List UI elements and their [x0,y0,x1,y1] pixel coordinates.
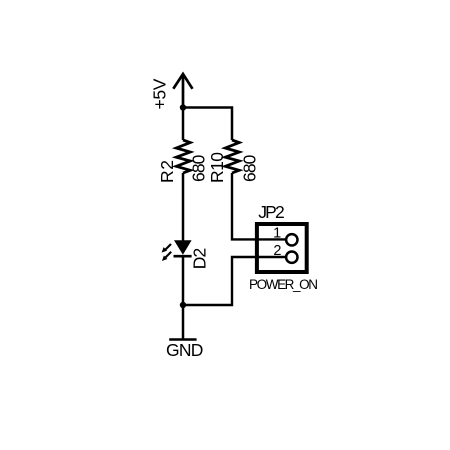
wire: R2 bottom to LED D2 [182,173,185,241]
svg-text:R10: R10 [207,152,227,183]
ground symbol: wire from node B [182,305,185,340]
svg-text:JP2: JP2 [258,202,285,222]
node B (junction dot) [180,302,186,308]
LED light arrow 2 [162,252,171,261]
svg-text:680: 680 [189,154,209,182]
svg-text:1: 1 [273,226,281,242]
svg-text:2: 2 [273,243,281,259]
wire: R10 bottom to JP2 pin 1 [232,173,285,239]
wire: LED D2 to node B [182,256,185,305]
svg-text:+5V: +5V [150,78,170,109]
LED light arrow 1 [162,244,171,253]
LED D2 (diode triangle) [174,240,192,255]
node A (junction dot) [180,104,186,110]
LED D2 cathode bar [174,255,192,258]
JP2 pin 1 circle [286,234,297,245]
wire: JP2 pin 2 to node B [183,257,285,305]
wire: node A to R10 top [183,108,232,141]
svg-text:D2: D2 [190,248,210,270]
ground symbol: bar [169,338,196,340]
connector JP2 body [257,224,307,272]
+5V power symbol (arrow) [173,74,192,108]
wire: node A to R2 top [182,108,185,141]
resistor R10 [225,140,239,173]
resistor R2 [176,140,190,173]
svg-text:680: 680 [240,154,260,182]
svg-text:R2: R2 [157,160,177,183]
JP2 pin 2 circle [286,252,297,263]
svg-text:GND: GND [166,340,203,360]
svg-text:POWER_ON: POWER_ON [249,277,318,292]
